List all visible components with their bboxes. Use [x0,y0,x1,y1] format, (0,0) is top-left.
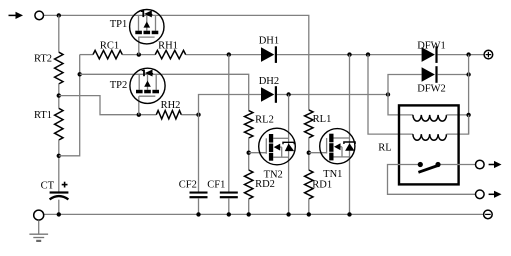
resistor RH1 [155,50,186,58]
svg-text:DFW2: DFW2 [417,84,446,95]
wire RC1 branch vertical [59,55,80,156]
diode DFW2 [422,66,438,83]
resistor RT1 [55,108,63,140]
svg-text:RT1: RT1 [34,110,52,121]
wire TN2 drain-source vertical [288,95,290,215]
node RT2/RT1 junction [57,93,61,97]
diode DH1 [261,46,277,63]
capacitor CT [50,191,69,214]
svg-text:TP2: TP2 [110,80,128,91]
node TN2 source junction [286,212,290,216]
wire RD2 to rail [248,199,250,214]
transistor TN2 [259,128,296,165]
node TN2 gate junction [247,151,251,155]
node relay coil2 branch junction [366,52,370,56]
label RL2 [255,115,274,126]
node TP2 gate junction [137,113,141,117]
diode DFW1 [422,46,438,63]
wire output bus vertical [468,55,470,135]
wire top rail from input to RL1 branch corner [44,15,309,110]
wire TN1 drain-source vertical [349,55,351,215]
svg-text:RH1: RH1 [158,41,178,52]
wire coil2 right lead [447,115,469,134]
label DH1 [259,35,279,46]
output 1 arrow [489,161,502,168]
terminal negative output [484,210,493,219]
resistor RD1 [305,170,313,199]
svg-text:DH1: DH1 [259,35,279,46]
label RC1 [100,41,119,52]
wire CF2 vertical [198,115,200,192]
label TN2 [264,169,283,180]
input terminal [35,11,44,20]
terminal positive output [484,50,493,59]
transistor TN1 [320,129,355,164]
ground [29,234,48,241]
wire DH2 branch up [199,95,262,115]
node TP1 gate junction [137,52,141,56]
wire RT2-RT1 link [58,84,60,108]
relay switch contacts [418,162,441,167]
relay box RL [399,105,459,184]
node TN2 drain junction [286,92,290,96]
wire DFW2 cathode to bus [438,74,469,76]
input arrow [9,12,24,19]
svg-text:RT2: RT2 [34,54,52,65]
svg-text:RD2: RD2 [255,179,275,190]
node RD2 bottom junction [247,212,251,216]
wire switch left branch to output2 [388,165,476,195]
node TP2 rail tap [78,72,82,76]
svg-text:CF2: CF2 [179,179,197,190]
label RH1 [158,41,178,52]
resistor RD2 [245,170,253,199]
resistor RC1 [93,50,122,58]
wire coil1 feed [388,95,413,115]
wire RD1 to rail [308,199,310,214]
transistor TP2 [130,68,165,103]
svg-text:TP1: TP1 [110,19,128,30]
label CF2 [179,179,197,190]
svg-text:CF1: CF1 [207,179,225,190]
svg-text:CT: CT [41,181,55,192]
node CF2 bottom junction [196,212,200,216]
node DFW1 output junction [466,52,470,56]
svg-text:DH2: DH2 [259,76,279,87]
wire TP1 gate lead [138,37,140,55]
wire RL2 to RD2 [248,138,250,170]
node RD1 bottom junction [307,212,311,216]
wire RT1 bottom to CT [58,140,60,192]
wire DH2 cathode run [277,94,388,96]
resistor RL1 [305,110,313,138]
capacitor CF1 [220,192,238,215]
label RD1 [312,180,332,191]
svg-text:RL2: RL2 [255,115,274,126]
wire ground lead [38,220,40,234]
resistor RL2 [245,111,253,138]
diode DH2 [261,86,277,103]
node CF1 top junction [227,52,231,56]
node DH2/DFW2/coil1 junction [386,92,390,96]
node input junction [57,13,61,17]
svg-text:RH2: RH2 [161,100,181,111]
node CF1 bottom junction [227,212,231,216]
wire coil2 feed from DH1 line [368,55,413,135]
label RT1 [34,110,52,121]
svg-text:RD1: RD1 [312,180,332,191]
label DFW1 [417,41,446,52]
label RH2 [161,100,181,111]
svg-text:RC1: RC1 [100,41,119,52]
node DFW2 bus junction [466,72,470,76]
node RH2/CF2/DH2 junction [196,113,200,117]
relay coil 1 [413,115,447,121]
wire switch right lead [438,164,476,166]
label CF1 [207,179,225,190]
node coil1 bus junction [466,113,470,117]
label TP2 [110,80,128,91]
wire coil1 right lead [447,114,469,116]
relay coil 2 [413,134,447,140]
label DFW2 [417,84,446,95]
wire DFW2 branch [388,75,422,95]
node TN1 gate junction [307,151,311,155]
node TN1 source junction [347,212,351,216]
wire main horizontal line y55 [80,54,484,56]
terminal output 1 [476,160,485,169]
relay switch arm [418,165,439,172]
node RT1/CT junction [57,154,61,158]
wire CF1 vertical [228,55,230,192]
capacitor CF2 [190,192,208,215]
wire RH2 segment [181,114,198,116]
label CT [41,181,55,192]
wire TN2 gate lead [249,152,267,154]
wire TN1 gate lead [309,152,327,154]
svg-text:DFW1: DFW1 [417,41,446,52]
terminal output 2 [476,190,485,199]
svg-text:RL: RL [378,143,391,154]
label RT2 [34,54,52,65]
label DH2 [259,76,279,87]
resistor RT2 [55,52,63,84]
svg-text:TN1: TN1 [323,169,342,180]
wire RL1 to RD1 [308,138,310,170]
transistor TP1 [130,10,164,44]
terminal ground reference [34,210,44,220]
label TN1 [323,169,342,180]
wire TP2 gate lead [138,96,140,115]
wire bottom rail [44,213,483,215]
label RL [378,143,391,154]
wire TP2 rail [80,74,249,110]
node CT bottom junction [57,212,61,216]
wire RT2 top lead [58,15,60,52]
output 2 arrow [489,191,502,198]
node TN1 drain top junction [347,52,351,56]
svg-text:RL1: RL1 [313,114,332,125]
wire divider tap to RH2 line [59,96,157,115]
label RL1 [313,114,332,125]
label TP1 [110,19,128,30]
label RD2 [255,179,275,190]
resistor RH2 [156,111,181,119]
label CT plus [62,182,68,188]
